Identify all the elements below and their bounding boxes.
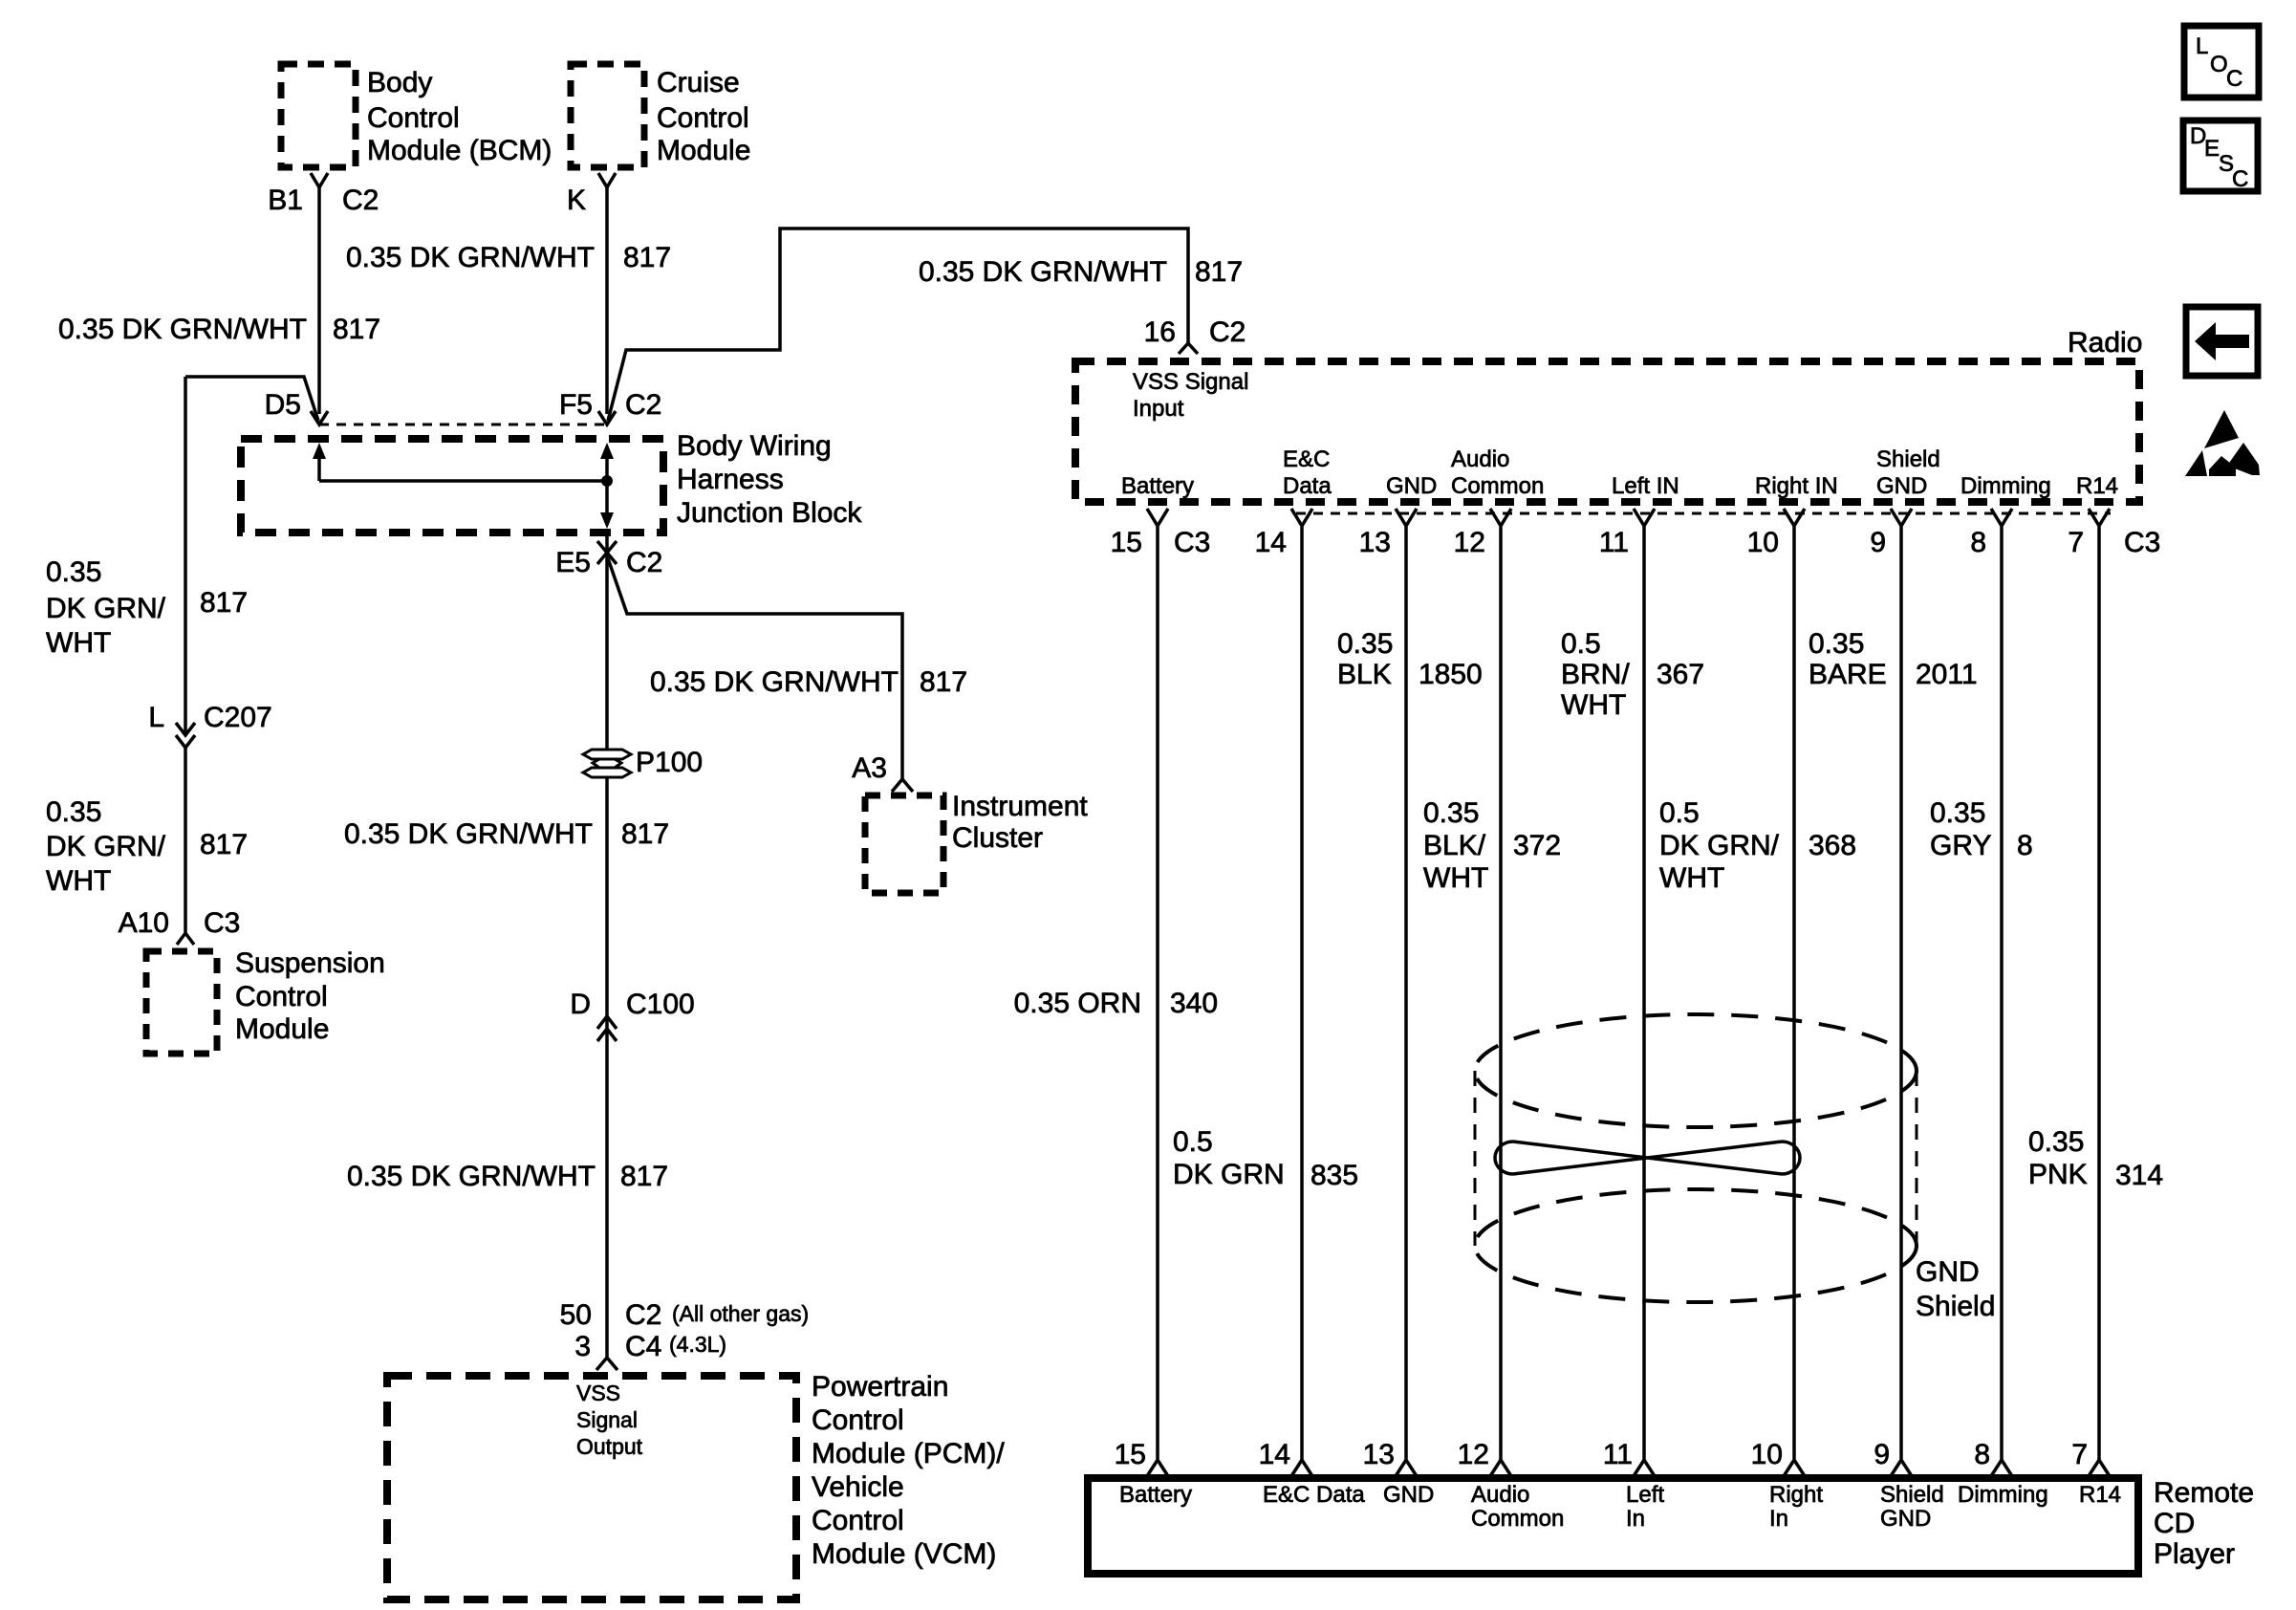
- svg-text:VSS: VSS: [576, 1381, 620, 1405]
- svg-text:L: L: [148, 702, 164, 733]
- svg-text:Vehicle: Vehicle: [812, 1471, 904, 1503]
- svg-text:E&C Data: E&C Data: [1263, 1482, 1365, 1508]
- svg-text:817: 817: [920, 666, 967, 698]
- svg-text:WHT: WHT: [1659, 862, 1724, 894]
- svg-text:14: 14: [1259, 1439, 1290, 1470]
- svg-text:CD: CD: [2154, 1508, 2195, 1539]
- svg-text:7: 7: [2071, 1439, 2088, 1470]
- svg-text:Right IN: Right IN: [1755, 473, 1838, 499]
- svg-text:WHT: WHT: [46, 627, 111, 659]
- svg-text:DK GRN/: DK GRN/: [46, 831, 166, 862]
- svg-text:B1: B1: [268, 185, 303, 216]
- svg-text:E&C: E&C: [1283, 446, 1330, 472]
- svg-text:K: K: [567, 185, 586, 216]
- svg-text:Audio: Audio: [1471, 1482, 1529, 1508]
- svg-text:Module (PCM)/: Module (PCM)/: [812, 1438, 1005, 1469]
- svg-text:0.35 DK GRN/WHT: 0.35 DK GRN/WHT: [919, 256, 1167, 288]
- svg-text:C3: C3: [204, 907, 240, 939]
- svg-text:BARE: BARE: [1809, 659, 1887, 690]
- svg-text:Shield: Shield: [1880, 1482, 1944, 1508]
- svg-text:Module: Module: [235, 1013, 329, 1045]
- svg-text:Dimming: Dimming: [1960, 473, 2051, 499]
- svg-text:817: 817: [621, 818, 669, 850]
- svg-text:P100: P100: [636, 747, 703, 778]
- svg-text:Shield: Shield: [1876, 446, 1940, 472]
- svg-text:C2: C2: [625, 389, 661, 421]
- svg-text:DK GRN: DK GRN: [1173, 1159, 1285, 1190]
- svg-text:Dimming: Dimming: [1958, 1482, 2048, 1508]
- svg-text:C4: C4: [625, 1331, 661, 1362]
- svg-text:0.35: 0.35: [1930, 797, 1985, 829]
- svg-text:0.35 DK GRN/WHT: 0.35 DK GRN/WHT: [347, 1161, 596, 1192]
- svg-text:Control: Control: [367, 102, 460, 134]
- svg-text:(All other gas): (All other gas): [672, 1301, 809, 1326]
- svg-text:GND: GND: [1880, 1506, 1931, 1532]
- svg-text:PNK: PNK: [2028, 1159, 2088, 1190]
- svg-text:817: 817: [200, 587, 248, 619]
- svg-text:8: 8: [1974, 1439, 1990, 1470]
- svg-text:Common: Common: [1471, 1506, 1564, 1532]
- svg-text:Audio: Audio: [1451, 446, 1509, 472]
- svg-text:C2: C2: [342, 185, 379, 216]
- svg-text:D5: D5: [265, 389, 301, 421]
- svg-text:E: E: [2204, 136, 2220, 162]
- svg-text:0.35 DK GRN/WHT: 0.35 DK GRN/WHT: [650, 666, 899, 698]
- svg-text:GND: GND: [1876, 473, 1927, 499]
- svg-text:16: 16: [1144, 316, 1176, 348]
- svg-text:10: 10: [1751, 1439, 1783, 1470]
- svg-text:Module (VCM): Module (VCM): [812, 1538, 996, 1570]
- svg-text:C100: C100: [626, 989, 695, 1020]
- svg-text:Battery: Battery: [1121, 473, 1194, 499]
- svg-text:GND: GND: [1386, 473, 1437, 499]
- svg-text:C3: C3: [1174, 527, 1210, 558]
- svg-text:Output: Output: [576, 1434, 643, 1459]
- svg-text:8: 8: [1970, 527, 1986, 558]
- svg-text:C3: C3: [2124, 527, 2160, 558]
- svg-text:BLK: BLK: [1337, 659, 1392, 690]
- svg-text:835: 835: [1310, 1160, 1358, 1191]
- svg-text:9: 9: [1870, 527, 1886, 558]
- svg-text:BLK/: BLK/: [1423, 830, 1486, 861]
- svg-text:(4.3L): (4.3L): [669, 1332, 726, 1357]
- svg-text:0.35: 0.35: [46, 556, 101, 588]
- svg-text:Cluster: Cluster: [952, 822, 1043, 854]
- svg-text:Powertrain: Powertrain: [812, 1371, 948, 1403]
- svg-text:14: 14: [1255, 527, 1287, 558]
- svg-text:R14: R14: [2079, 1482, 2121, 1508]
- svg-text:Body: Body: [367, 67, 432, 98]
- svg-text:WHT: WHT: [1423, 862, 1488, 894]
- svg-text:Right: Right: [1769, 1482, 1823, 1508]
- svg-text:F5: F5: [559, 389, 593, 421]
- svg-text:Control: Control: [812, 1404, 904, 1436]
- svg-text:Input: Input: [1133, 396, 1184, 422]
- svg-text:0.35 DK GRN/WHT: 0.35 DK GRN/WHT: [346, 242, 595, 273]
- svg-text:D: D: [570, 989, 591, 1020]
- svg-text:Radio: Radio: [2068, 327, 2142, 359]
- svg-text:Left IN: Left IN: [1612, 473, 1679, 499]
- svg-text:8: 8: [2017, 830, 2033, 861]
- svg-text:50: 50: [560, 1299, 592, 1331]
- svg-text:VSS Signal: VSS Signal: [1133, 369, 1248, 395]
- svg-text:Remote: Remote: [2154, 1477, 2254, 1509]
- svg-text:Instrument: Instrument: [952, 791, 1088, 822]
- svg-text:GRY: GRY: [1930, 830, 1991, 861]
- svg-text:C2: C2: [1209, 316, 1245, 348]
- svg-text:9: 9: [1874, 1439, 1890, 1470]
- svg-text:0.35: 0.35: [1423, 797, 1479, 829]
- svg-text:0.35: 0.35: [1337, 628, 1393, 660]
- svg-text:12: 12: [1454, 527, 1485, 558]
- svg-text:WHT: WHT: [46, 865, 111, 897]
- svg-text:Body Wiring: Body Wiring: [677, 430, 832, 462]
- svg-text:314: 314: [2115, 1160, 2163, 1191]
- svg-text:817: 817: [333, 314, 380, 345]
- svg-text:Control: Control: [657, 102, 749, 134]
- svg-text:817: 817: [200, 829, 248, 860]
- svg-text:0.35: 0.35: [46, 796, 101, 828]
- svg-text:R14: R14: [2076, 473, 2118, 499]
- svg-text:13: 13: [1363, 1439, 1395, 1470]
- svg-text:7: 7: [2068, 527, 2084, 558]
- svg-text:Signal: Signal: [576, 1407, 638, 1432]
- svg-text:DK GRN/: DK GRN/: [46, 593, 166, 624]
- svg-text:368: 368: [1809, 830, 1856, 861]
- svg-text:15: 15: [1111, 527, 1142, 558]
- svg-text:817: 817: [623, 242, 671, 273]
- svg-text:367: 367: [1657, 659, 1704, 690]
- svg-text:C207: C207: [204, 702, 272, 733]
- svg-text:817: 817: [1195, 256, 1243, 288]
- svg-text:WHT: WHT: [1561, 689, 1626, 721]
- svg-text:340: 340: [1170, 988, 1218, 1019]
- svg-text:Shield: Shield: [1916, 1291, 1995, 1322]
- svg-text:C: C: [2226, 66, 2242, 92]
- svg-text:C2: C2: [625, 1299, 661, 1331]
- svg-text:L: L: [2196, 33, 2208, 59]
- svg-text:Suspension: Suspension: [235, 947, 385, 979]
- svg-text:Left: Left: [1626, 1482, 1664, 1508]
- svg-text:E5: E5: [555, 547, 591, 578]
- svg-text:Player: Player: [2154, 1538, 2235, 1570]
- svg-text:0.35 DK GRN/WHT: 0.35 DK GRN/WHT: [58, 314, 307, 345]
- svg-text:BRN/: BRN/: [1561, 659, 1630, 690]
- svg-text:10: 10: [1747, 527, 1779, 558]
- svg-text:13: 13: [1359, 527, 1391, 558]
- svg-text:0.5: 0.5: [1173, 1126, 1213, 1158]
- svg-text:Common: Common: [1451, 473, 1544, 499]
- svg-text:Module (BCM): Module (BCM): [367, 135, 552, 166]
- svg-text:DK GRN/: DK GRN/: [1659, 830, 1780, 861]
- svg-text:GND: GND: [1916, 1256, 1980, 1288]
- svg-text:0.35: 0.35: [1809, 628, 1864, 660]
- svg-text:1850: 1850: [1419, 659, 1483, 690]
- svg-text:817: 817: [620, 1161, 668, 1192]
- svg-text:372: 372: [1513, 830, 1561, 861]
- svg-text:11: 11: [1599, 527, 1629, 558]
- svg-text:Module: Module: [657, 135, 750, 166]
- svg-text:Junction Block: Junction Block: [677, 497, 862, 529]
- svg-text:Harness: Harness: [677, 464, 784, 495]
- svg-text:Battery: Battery: [1119, 1482, 1192, 1508]
- svg-text:3: 3: [574, 1331, 591, 1362]
- svg-text:0.5: 0.5: [1659, 797, 1700, 829]
- svg-text:O: O: [2210, 52, 2228, 77]
- svg-text:Data: Data: [1283, 473, 1332, 499]
- svg-text:In: In: [1626, 1506, 1645, 1532]
- svg-text:0.35 DK GRN/WHT: 0.35 DK GRN/WHT: [344, 818, 593, 850]
- svg-text:Cruise: Cruise: [657, 67, 740, 98]
- svg-text:15: 15: [1115, 1439, 1146, 1470]
- svg-text:Control: Control: [235, 981, 328, 1012]
- svg-text:2011: 2011: [1916, 659, 1978, 690]
- svg-text:GND: GND: [1383, 1482, 1434, 1508]
- svg-text:12: 12: [1458, 1439, 1489, 1470]
- svg-text:C: C: [2232, 166, 2248, 192]
- svg-text:0.35 ORN: 0.35 ORN: [1014, 988, 1141, 1019]
- svg-text:A3: A3: [852, 752, 887, 784]
- svg-text:11: 11: [1603, 1439, 1633, 1470]
- svg-text:Control: Control: [812, 1505, 904, 1536]
- svg-text:A10: A10: [119, 907, 169, 939]
- svg-text:C2: C2: [626, 547, 662, 578]
- svg-text:0.35: 0.35: [2028, 1126, 2084, 1158]
- svg-text:0.5: 0.5: [1561, 628, 1601, 660]
- svg-text:In: In: [1769, 1506, 1788, 1532]
